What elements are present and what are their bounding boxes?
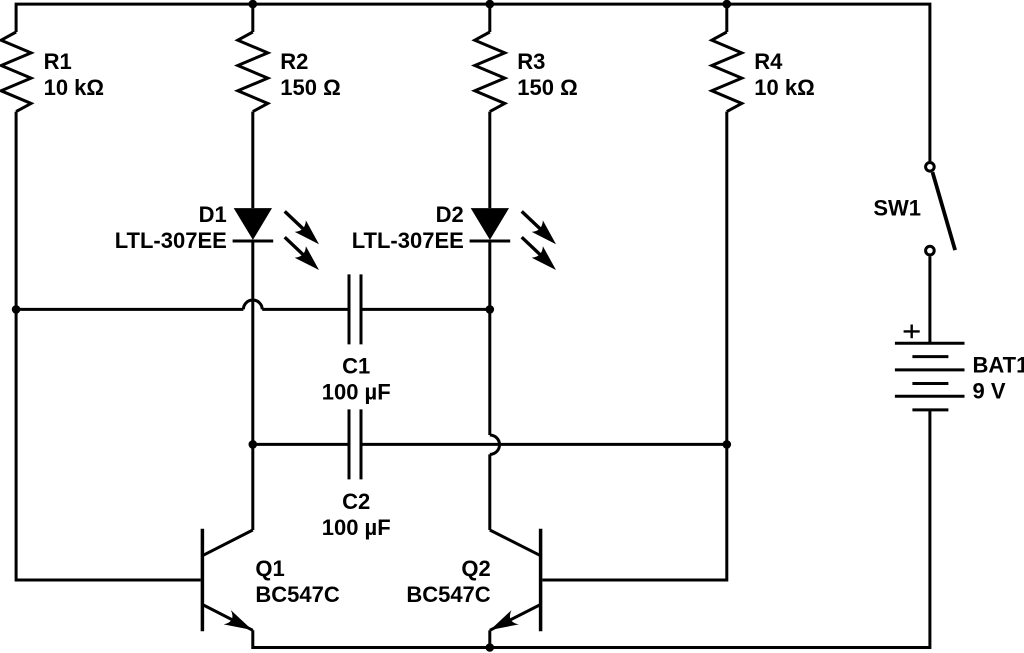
capacitor C1 <box>349 274 361 344</box>
svg-text:100 µF: 100 µF <box>322 515 391 540</box>
svg-text:D2: D2 <box>436 202 464 227</box>
resistor R2 top lead <box>251 4 254 32</box>
wire R1 bottom to node A down left side and to Q1 base <box>16 112 201 580</box>
wire D2 cathode down to row2 hop <box>488 241 491 435</box>
resistor R2 <box>238 32 268 112</box>
svg-text:10 kΩ: 10 kΩ <box>754 75 814 100</box>
svg-text:R2: R2 <box>280 49 308 74</box>
wire top rail with R1 top lead and right column down to switch <box>16 4 930 161</box>
wire C1 right plate to R3 column <box>361 308 490 311</box>
wire R4 bottom through row2 down and to Q2 base <box>542 112 726 580</box>
node dot top rail R4 <box>723 0 732 8</box>
wire R2 bottom to D1 anode <box>251 112 254 209</box>
switch SW1 <box>926 163 955 255</box>
wire Q2 emitter to bottom rail <box>488 630 491 647</box>
wire hop of row 1 over R2 column <box>243 300 262 309</box>
LED D1 <box>233 208 319 270</box>
transistor Q1 <box>202 529 252 632</box>
svg-text:SW1: SW1 <box>873 196 921 221</box>
svg-text:LTL-307EE: LTL-307EE <box>115 228 227 253</box>
node dot top rail R2 <box>249 0 258 8</box>
node dot row2 left <box>249 440 258 449</box>
svg-text:BC547C: BC547C <box>406 582 490 607</box>
wire R3 bottom to D2 anode <box>488 112 491 209</box>
svg-text:C1: C1 <box>342 353 370 378</box>
node dot top rail R3 <box>486 0 495 8</box>
svg-text:BAT1: BAT1 <box>973 353 1024 378</box>
svg-text:R4: R4 <box>754 49 783 74</box>
wire D1 cathode down to Q1 collector corner <box>251 241 254 530</box>
wire bottom rail from Q1 emitter to battery minus <box>253 410 930 648</box>
node dot row1 right <box>486 305 495 314</box>
resistor R1 <box>1 32 31 112</box>
svg-text:Q2: Q2 <box>461 556 490 581</box>
LED D2 <box>470 208 556 270</box>
node dot row2 right <box>723 440 732 449</box>
resistor R3 top lead <box>488 4 491 32</box>
node dot bottom rail Q2 emitter <box>486 643 495 652</box>
svg-text:Q1: Q1 <box>255 556 284 581</box>
wire row 2 from R2 column to C2 left plate <box>253 443 349 446</box>
svg-text:BC547C: BC547C <box>255 582 339 607</box>
svg-text:D1: D1 <box>199 202 227 227</box>
svg-text:100 µF: 100 µF <box>322 379 391 404</box>
wire C2 right plate across to R4 column <box>361 443 727 446</box>
wire switch to battery plus <box>928 256 931 343</box>
transistor Q2 <box>490 529 541 632</box>
node dot row1 left <box>12 305 21 314</box>
wire hop of R3 column over row 2 <box>490 435 500 454</box>
capacitor C2 <box>349 409 361 479</box>
svg-text:9 V: 9 V <box>973 379 1006 404</box>
resistor R4 <box>712 32 742 112</box>
wire row 1 left segment from node A to hop <box>16 308 243 311</box>
resistor R3 <box>475 32 505 112</box>
battery BAT1 <box>895 325 965 410</box>
svg-text:C2: C2 <box>342 489 370 514</box>
svg-text:LTL-307EE: LTL-307EE <box>352 228 464 253</box>
svg-text:150 Ω: 150 Ω <box>517 75 577 100</box>
svg-text:R1: R1 <box>44 49 72 74</box>
svg-text:R3: R3 <box>517 49 545 74</box>
wire row 1 hop to C1 left plate <box>262 308 349 311</box>
wire below hop to Q2 collector corner <box>488 454 491 530</box>
svg-text:150 Ω: 150 Ω <box>280 75 340 100</box>
svg-text:10 kΩ: 10 kΩ <box>44 75 104 100</box>
resistor R4 top lead <box>725 4 728 32</box>
